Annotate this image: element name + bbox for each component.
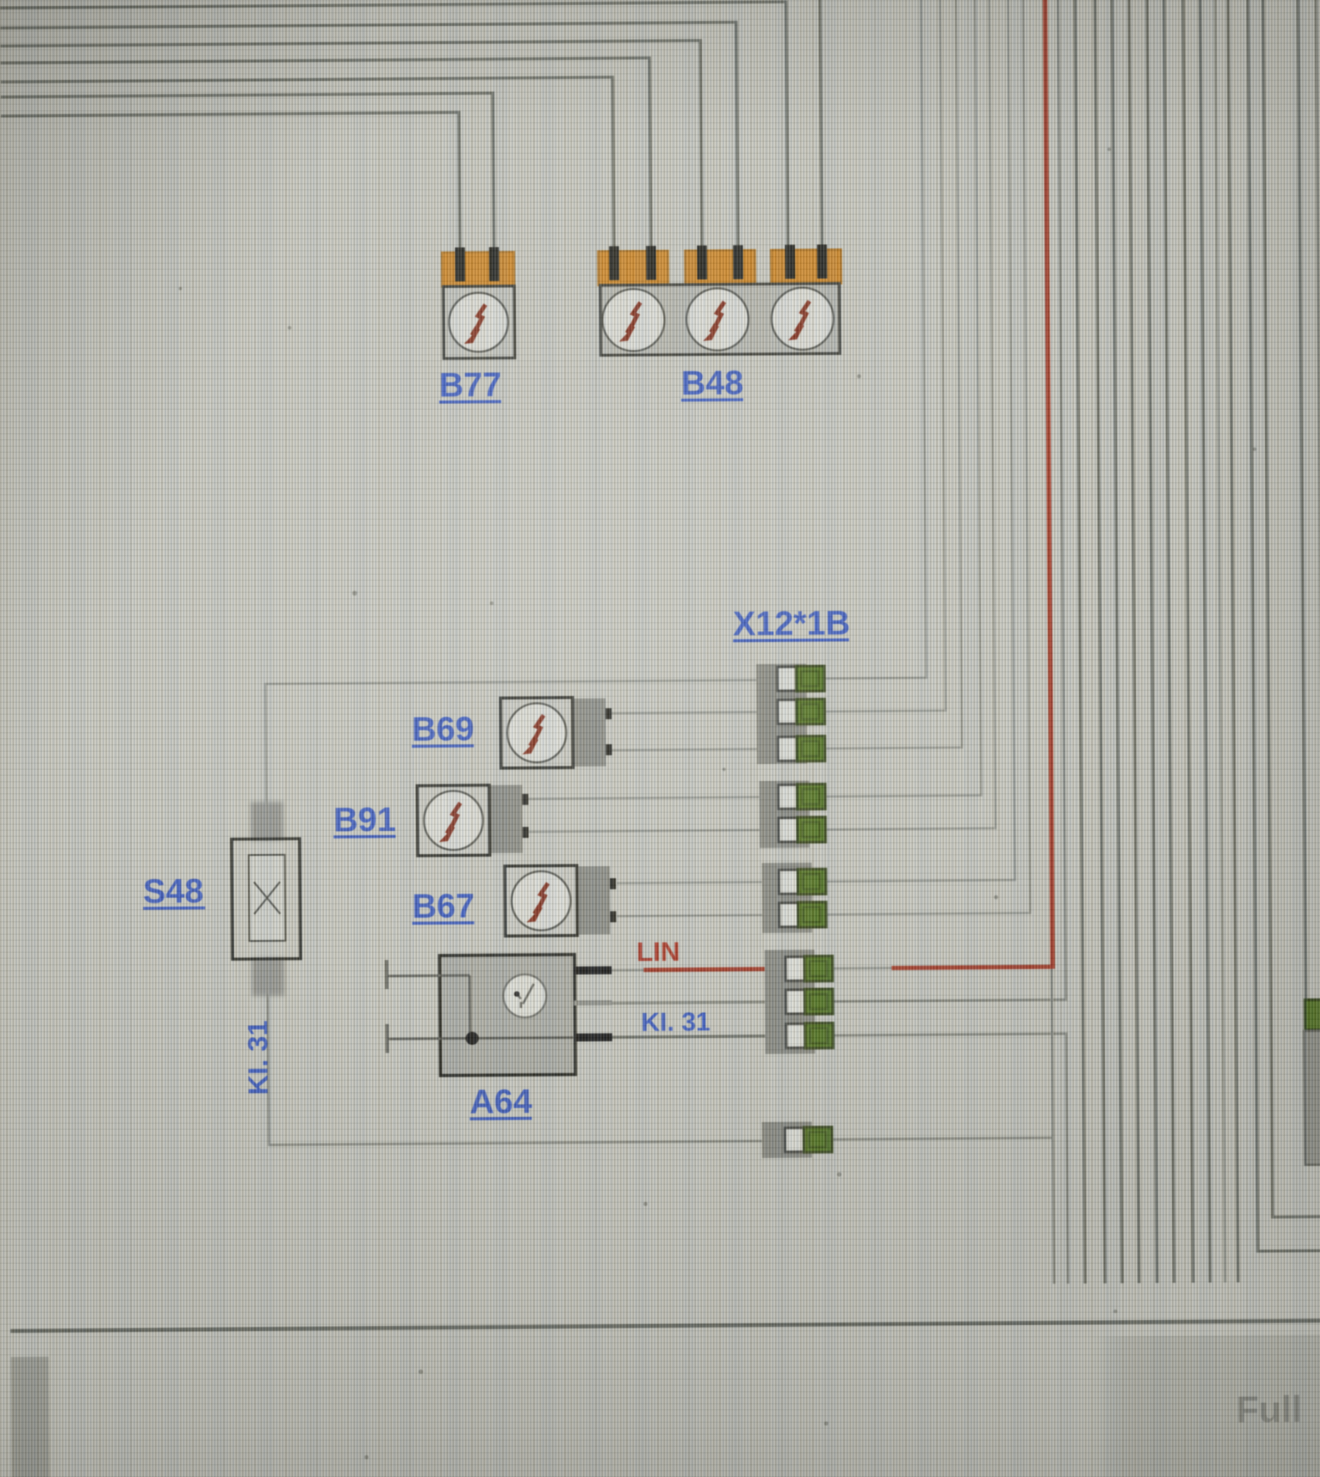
label S48 xyxy=(143,872,205,910)
wire bundle vertical 12 edge xyxy=(1316,0,1320,1002)
svg-text:KI. 31: KI. 31 xyxy=(242,1020,274,1095)
svg-text:Full: Full xyxy=(1236,1389,1302,1431)
wire bundle vertical 5 xyxy=(1147,0,1157,1283)
wire: A64 mid pin wire xyxy=(611,1002,786,1003)
wire: B69 wire 2 xyxy=(611,749,778,750)
wire: X12 group2 pin1 exit up xyxy=(819,0,981,797)
wire: long KI.31 bus bottom full width xyxy=(0,1321,1320,1332)
svg-text:B69: B69 xyxy=(412,710,475,748)
wire: X12 group2 pin2 exit up xyxy=(819,0,996,830)
sensor B48 (triple) xyxy=(598,244,842,355)
wire: B69 wire 1 xyxy=(611,712,778,713)
A64 pin middle right xyxy=(574,1000,612,1005)
svg-text:LIN: LIN xyxy=(636,937,680,967)
wire: top-left horizontal feed 3 to B48 pin3 xyxy=(0,41,702,258)
wire: B67 wire 2 xyxy=(617,915,779,916)
svg-text:B91: B91 xyxy=(333,801,396,839)
wire: B48 pin6 vertical from top edge xyxy=(820,0,822,252)
wire: B67 wire 1 xyxy=(617,882,779,883)
label B67 xyxy=(412,887,475,925)
connector X12*1B group 1 (3 pins) xyxy=(756,664,825,765)
wire: X12 group3 pin2 exit up xyxy=(819,0,1030,915)
label A64 xyxy=(470,1083,533,1121)
sensor B77 xyxy=(442,247,515,359)
wire: top-left horizontal feed 2 to B48 pin4 xyxy=(0,22,738,258)
wire: X12 group4 pin1 right gray stub xyxy=(827,967,892,970)
connector X12*1B single pin xyxy=(762,1122,832,1159)
wire: top-left horizontal feed 6 to B77 pin2 xyxy=(1,93,494,258)
svg-text:B77: B77 xyxy=(439,366,502,404)
wire: A64 top pin stub gray part xyxy=(611,969,648,972)
A64 internal junction xyxy=(468,975,471,1038)
wire bundle vertical 3 xyxy=(1112,0,1122,1283)
label B69 xyxy=(412,710,475,748)
wire: top-left horizontal feed 1 to B48 pin5 xyxy=(0,2,788,258)
wire: X12 group4 pin2 exit up xyxy=(819,0,1066,1002)
UI panel bottom-right with Full button xyxy=(1091,1334,1320,1477)
wire bundle vertical 9 faint xyxy=(1215,0,1225,1282)
wire: A64 KI31 wire to X12 group4 pin3 xyxy=(611,1036,786,1037)
wire: top-left horizontal feed 7 to B77 pin1 xyxy=(1,112,460,258)
sensor B67 xyxy=(505,865,617,936)
wire corner bottom-right 2 xyxy=(1263,0,1320,1217)
wire LIN red: X12 group4 pin1 to vertical riser xyxy=(892,967,1053,968)
svg-text:X12*1B: X12*1B xyxy=(733,604,850,643)
wire: X12 group1 pin2 exit up xyxy=(819,0,946,712)
wire LIN red: A64 to X12 group4 pin1 xyxy=(644,969,786,970)
wire: X12 single pin exit right joining down line xyxy=(828,1138,1053,1140)
wire: X12 group3 pin1 exit up xyxy=(819,0,1015,882)
A64 pin KI.31 (bottom right, thick black) xyxy=(574,1033,612,1041)
wire bundle vertical 8 xyxy=(1200,0,1210,1283)
wire: X12 group4 pin3 exit down xyxy=(827,1034,1068,1286)
wire bundle vertical 1 xyxy=(1075,0,1085,1284)
svg-text:S48: S48 xyxy=(143,872,204,910)
switch S48 xyxy=(231,802,301,997)
wire bundle vertical 2 xyxy=(1095,0,1105,1283)
wire bundle vertical 10 xyxy=(1228,0,1238,1282)
wire: B91 wire 2 xyxy=(528,830,779,832)
label B77 xyxy=(439,366,502,404)
connector X12*1B group 4 (3 pins, LIN + KI.31) xyxy=(764,949,833,1054)
label X12*1B xyxy=(733,604,850,643)
wire: X12 group1 pin1 exit up xyxy=(819,0,926,679)
control unit A64 xyxy=(387,954,613,1076)
A64 terminal T2 xyxy=(385,1024,389,1053)
wire corner bottom-right 1 xyxy=(1248,0,1320,1251)
wire: S48 bottom KI.31 to X12 single pin xyxy=(268,953,785,1145)
wire: X12 group1 pin3 exit up xyxy=(819,0,962,749)
A64 terminal T1 xyxy=(385,960,389,989)
label B48 xyxy=(681,364,744,402)
wire: gray continuation below red corner down xyxy=(1052,969,1054,1284)
svg-text:A64: A64 xyxy=(470,1083,533,1121)
wire bundle vertical 4 xyxy=(1129,0,1139,1283)
svg-text:B48: B48 xyxy=(681,364,744,402)
wire bundle vertical 6 xyxy=(1164,0,1174,1283)
wire LIN red vertical riser to top xyxy=(1045,0,1053,969)
sensor B91 xyxy=(417,785,529,856)
A64 pump circle xyxy=(503,974,546,1017)
label B91 xyxy=(333,801,396,839)
wire: top-left horizontal feed 4 to B48 pin2 xyxy=(0,58,651,258)
wire vertical to edge connector xyxy=(1298,0,1306,1002)
sensor B69 xyxy=(500,697,612,768)
wire: top-left horizontal feed 5 to B48 pin1 xyxy=(1,77,614,258)
A64 pin LIN (top right, thick black) xyxy=(574,966,612,974)
wire: S48 top to connector X12*1B pin 1 xyxy=(265,680,778,841)
UI block bottom-left xyxy=(0,1357,50,1477)
connector X12*1B group 2 (2 pins) xyxy=(759,781,826,849)
dust specks xyxy=(178,146,1265,1460)
connector X12*1B group 3 (2 pins) xyxy=(762,863,827,934)
svg-text:B67: B67 xyxy=(412,887,475,925)
wire: B91 wire 1 xyxy=(527,797,778,799)
edge connector pin (partial, right edge) xyxy=(1304,1000,1320,1165)
svg-text:KI. 31: KI. 31 xyxy=(641,1006,711,1037)
wire bundle vertical 7 xyxy=(1183,0,1193,1283)
